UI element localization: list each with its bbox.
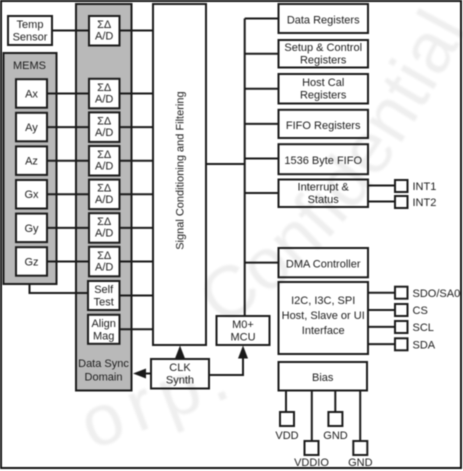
svg-text:SDO/SA0: SDO/SA0 [413,288,461,300]
block Gy [16,214,47,243]
svg-text:Interface: Interface [302,325,345,337]
wire Interrupt to INT2 pin [368,201,395,203]
ADC channel 5 [89,213,120,243]
pin INT1 [395,180,408,192]
svg-text:GND: GND [323,430,348,442]
block Data Registers [279,4,369,33]
svg-text:A/D: A/D [95,161,113,173]
wire Gz to ADC [47,261,89,263]
wire Bias to GND pin [334,391,336,413]
pin GND2 [353,441,367,455]
svg-text:Data Sync: Data Sync [78,358,129,370]
wire CLK Synth to Signal Conditioning arrow [175,346,185,360]
wire bus to Setup Control Registers [245,53,279,55]
svg-text:Gx: Gx [24,189,39,201]
wire ADC1 to Signal Conditioning [120,93,154,95]
wire Gy to ADC [47,227,89,229]
svg-text:CS: CS [413,305,428,317]
wire Bias to GND2 pin [359,391,361,442]
wire ADC4 to Signal Conditioning [120,193,154,195]
block Ax [16,79,47,108]
label VDD [275,430,298,442]
svg-text:A/D: A/D [95,31,113,43]
ADC channel 1 [89,79,120,109]
svg-text:Gz: Gz [24,256,38,268]
svg-text:ΣΔ: ΣΔ [97,250,112,262]
svg-text:ΣΔ: ΣΔ [97,216,112,228]
pin VDDIO [305,441,319,455]
wire bus to Data Registers [245,18,279,20]
wire Signal Conditioning to bus [206,163,245,165]
svg-text:Registers: Registers [300,90,347,102]
label INT2 [413,197,437,209]
wire Ax to ADC [47,93,89,95]
ADC channel 2 [89,112,120,141]
svg-text:I2C, I3C, SPI: I2C, I3C, SPI [291,295,355,307]
pin CS [395,304,408,316]
block Az [16,146,47,175]
svg-text:Temp: Temp [17,19,44,31]
wire ADC2 to Signal Conditioning [120,126,154,128]
wire CLK Synth to Data Sync Domain arrow [133,369,151,379]
svg-text:Ay: Ay [25,122,38,134]
svg-text:Ax: Ax [25,89,38,101]
ADC channel 6 [89,247,120,276]
svg-text:Az: Az [25,156,38,168]
pin GND [328,412,342,426]
label MEMS [13,60,46,72]
svg-text:Signal Conditioning and Filter: Signal Conditioning and Filtering [175,91,187,249]
ADC channel 3 [89,146,120,176]
block M0+ MCU [217,316,270,345]
pin SCL [395,321,408,333]
wire bus to DMA Controller [245,262,279,264]
label GND2 [348,457,373,469]
label CS [413,305,428,317]
wire Interrupt to INT1 pin [368,185,395,187]
block Align Mag [88,315,120,344]
block Self Test [88,281,120,310]
label Data Sync Domain [78,358,129,384]
wire temp ADC to Signal Conditioning [120,30,154,32]
svg-text:A/D: A/D [95,93,113,105]
svg-text:VDD: VDD [275,430,298,442]
wire Gx to ADC [47,193,89,195]
svg-text:VDDIO: VDDIO [294,457,329,469]
pin SDO/SA0 [395,287,408,299]
svg-text:A/D: A/D [95,261,113,273]
svg-text:INT2: INT2 [413,197,437,209]
wire Align Mag to Signal Conditioning [120,328,154,330]
block Setup & Control Registers [279,40,369,68]
svg-text:SCL: SCL [413,322,434,334]
label GND [323,430,348,442]
block 1536 Byte FIFO [279,144,369,174]
label SDA [413,339,436,351]
svg-text:SDA: SDA [413,339,436,351]
MEMS container [4,53,57,284]
svg-text:A/D: A/D [95,194,113,206]
svg-text:GND: GND [348,457,373,469]
label SCL [413,322,434,334]
wire MEMS to Self Test [30,284,89,293]
label INT1 [413,181,437,193]
wire bus to Interrupt Status [245,192,279,194]
svg-text:ΣΔ: ΣΔ [97,19,112,31]
svg-text:Bias: Bias [312,372,334,384]
svg-text:Align: Align [91,318,115,330]
block CLK Synth [151,359,209,389]
block Temp Sensor [8,16,52,45]
ADC channel 4 [89,180,120,210]
wire Temp Sensor to ADC [52,30,89,32]
block DMA Controller [279,248,369,277]
svg-text:Setup & Control: Setup & Control [284,42,362,54]
svg-text:Gy: Gy [24,223,39,235]
svg-text:Host, Slave or UI: Host, Slave or UI [282,310,365,322]
block Interrupt & Status [279,180,369,208]
wire ADC6 to Signal Conditioning [120,261,154,263]
svg-text:A/D: A/D [95,228,113,240]
block Host Cal Registers [279,74,369,104]
label VDDIO [294,457,329,469]
pin VDD [280,412,294,426]
wire bus to 1536 Byte FIFO [245,158,279,160]
wire CLK Synth to MCU arrow [209,346,248,376]
wire Self Test to Signal Conditioning [120,295,154,297]
pin INT2 [395,196,408,208]
svg-text:ΣΔ: ΣΔ [97,115,112,127]
block Gz [16,247,47,276]
svg-text:ΣΔ: ΣΔ [97,149,112,161]
svg-text:Test: Test [94,297,114,309]
wire interface to CS pin [368,309,395,311]
block Signal Conditioning and Filtering [153,4,206,345]
wire interface to SDA pin [368,343,395,345]
svg-text:Data Registers: Data Registers [287,15,360,27]
svg-text:Host Cal: Host Cal [302,77,344,89]
bus vertical register bus [244,19,246,317]
svg-text:INT1: INT1 [413,181,437,193]
svg-text:A/D: A/D [95,127,113,139]
wire bus to Host Cal Registers [245,88,279,90]
label SDO/SA0 [413,288,461,300]
svg-text:Mag: Mag [93,330,114,342]
svg-text:Registers: Registers [300,55,347,67]
wire Bias to VDD pin [285,391,287,413]
svg-text:ΣΔ: ΣΔ [97,183,112,195]
wire bus to FIFO Registers [245,123,279,125]
watermark orp fragment [69,333,247,465]
block Ay [16,113,47,142]
svg-text:Sensor: Sensor [13,32,48,44]
wire Ay to ADC [47,126,89,128]
wire ADC5 to Signal Conditioning [120,227,154,229]
pin SDA [395,338,408,350]
watermark Confidential fragment [185,0,463,340]
svg-text:MEMS: MEMS [13,60,46,72]
Data Sync Domain container [76,4,132,391]
wire Bias to VDDIO pin [311,391,313,442]
wire interface to SDO pin [368,292,395,294]
wire ADC3 to Signal Conditioning [120,160,154,162]
block Bias [279,362,368,391]
block FIFO Registers [279,110,369,138]
wire interface to SCL pin [368,326,395,328]
ADC temp channel [89,16,120,46]
block I2C I3C SPI Host Slave or UI Interface [279,282,369,354]
svg-text:Self: Self [94,284,114,296]
block Gx [16,180,47,209]
wire Az to ADC [47,160,89,162]
svg-text:ΣΔ: ΣΔ [97,82,112,94]
